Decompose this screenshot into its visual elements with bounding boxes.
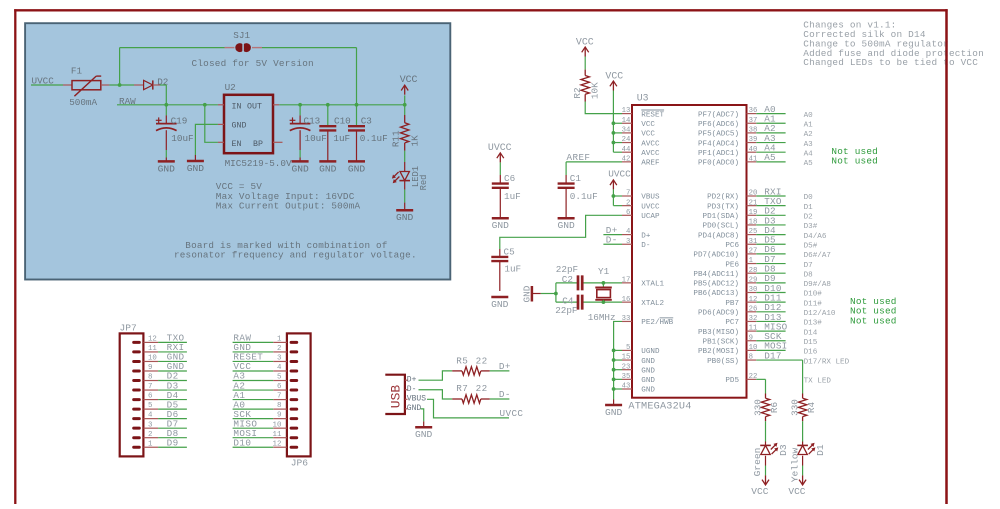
svg-text:Y1: Y1 — [598, 266, 610, 277]
svg-text:GND: GND — [491, 299, 509, 310]
resistor R6 330 — [752, 394, 780, 442]
U3 pin 41 PF0(ADC0) — [698, 152, 813, 168]
svg-text:A5: A5 — [764, 152, 776, 163]
note board marking — [174, 240, 417, 261]
supply VCC below D3 — [751, 475, 769, 497]
JP7 pin 1 net D9 — [143, 437, 187, 448]
U3 pin 23 GND — [622, 363, 656, 375]
svg-text:10uF: 10uF — [305, 133, 327, 144]
U3 pin 37 PF6(ADC6) — [698, 114, 813, 130]
svg-text:D-: D- — [641, 242, 650, 250]
svg-text:28: 28 — [749, 267, 758, 275]
ground below U2 GND — [187, 155, 205, 174]
U3 pin 27 PD7(ADC10) — [693, 244, 831, 260]
ground below C3 — [348, 161, 366, 174]
svg-text:3: 3 — [626, 238, 630, 246]
U3 pin 42 AREF — [622, 155, 660, 167]
svg-text:4: 4 — [277, 364, 282, 372]
svg-text:20: 20 — [749, 190, 758, 198]
svg-text:7: 7 — [148, 383, 152, 391]
svg-text:UCAP: UCAP — [641, 213, 660, 221]
svg-text:15: 15 — [622, 354, 631, 362]
svg-text:A3: A3 — [804, 141, 814, 149]
JP6 pin 1 net RAW — [233, 333, 287, 344]
JP7 pin 6 net D4 — [143, 390, 187, 401]
svg-text:F1: F1 — [71, 65, 83, 76]
svg-text:9: 9 — [277, 412, 281, 420]
svg-text:0.1uF: 0.1uF — [570, 191, 598, 202]
svg-text:6: 6 — [277, 383, 281, 391]
svg-text:D3#: D3# — [804, 223, 818, 231]
svg-text:D8: D8 — [804, 271, 814, 279]
svg-text:GND: GND — [605, 407, 623, 418]
svg-text:JP6: JP6 — [291, 458, 309, 469]
svg-text:R11: R11 — [391, 130, 402, 147]
USB pin GND — [405, 404, 422, 413]
svg-text:32: 32 — [749, 315, 758, 323]
svg-text:GND: GND — [348, 163, 366, 174]
U3 pin 14 VCC — [622, 117, 656, 129]
capacitor C6 — [492, 173, 521, 212]
svg-text:AREF: AREF — [567, 152, 591, 163]
svg-text:GND: GND — [641, 387, 655, 395]
svg-text:14: 14 — [622, 117, 631, 125]
svg-text:R7: R7 — [456, 383, 468, 394]
svg-text:A5: A5 — [804, 160, 814, 168]
wire D2 to RAW node — [153, 85, 167, 105]
svg-text:6: 6 — [148, 393, 152, 401]
JP6 pin 7 net A1 — [233, 390, 287, 401]
svg-text:UVCC: UVCC — [32, 76, 55, 87]
capacitor C13 — [290, 105, 327, 162]
svg-text:42: 42 — [622, 155, 631, 163]
wire XTAL1 row — [582, 281, 622, 285]
svg-text:UVCC: UVCC — [488, 142, 512, 153]
JP7 pin 5 net D5 — [143, 399, 187, 410]
svg-text:17: 17 — [622, 276, 631, 284]
U3 pin 5 UGND — [622, 344, 660, 356]
svg-text:U2: U2 — [225, 82, 236, 93]
svg-text:35: 35 — [622, 373, 631, 381]
JP7 pin 12 net TXO — [143, 333, 187, 344]
svg-text:10uF: 10uF — [171, 133, 193, 144]
wire R2 to RESET pin — [585, 102, 622, 114]
resistor R5 22 — [452, 355, 490, 375]
svg-text:1: 1 — [148, 440, 153, 448]
net stub D- to U3 — [603, 235, 622, 246]
svg-text:8: 8 — [148, 374, 152, 382]
svg-text:VCC: VCC — [751, 486, 768, 497]
svg-text:25: 25 — [749, 228, 758, 236]
resistor R11 1K — [391, 105, 421, 172]
note changes v1.1 — [803, 20, 984, 69]
svg-text:GND: GND — [492, 220, 510, 231]
net label D+ after R5 — [490, 361, 511, 372]
supply UVCC above C6 — [488, 142, 512, 175]
svg-text:D+: D+ — [499, 361, 511, 372]
svg-text:VBUS: VBUS — [407, 395, 426, 404]
svg-text:39: 39 — [749, 136, 758, 144]
capacitor C5 — [491, 247, 521, 292]
svg-text:1: 1 — [277, 336, 282, 344]
svg-text:PD7(ADC10): PD7(ADC10) — [693, 252, 739, 260]
svg-text:GND: GND — [641, 377, 655, 385]
svg-text:330: 330 — [789, 399, 800, 416]
U3 pin 43 GND — [622, 383, 656, 395]
svg-text:24: 24 — [622, 136, 631, 144]
svg-text:RAW: RAW — [119, 96, 136, 107]
JP6 pin 5 net A3 — [233, 371, 287, 382]
svg-text:AVCC: AVCC — [641, 150, 660, 158]
JP6 pin 4 net VCC — [233, 361, 287, 372]
voltage regulator U2 — [218, 82, 292, 169]
svg-text:GND: GND — [396, 212, 414, 223]
svg-text:9: 9 — [148, 364, 152, 372]
svg-text:PD3(TX): PD3(TX) — [707, 203, 739, 211]
crystal Y1 16MHz — [588, 266, 616, 323]
svg-text:5: 5 — [626, 344, 630, 352]
JP7 pin 9 net GND — [143, 361, 187, 372]
U3 pin 40 PF1(ADC1) — [698, 143, 813, 159]
svg-text:Changed LEDs to be tied to VCC: Changed LEDs to be tied to VCC — [803, 57, 978, 68]
net RAW wire — [117, 96, 218, 107]
svg-text:D6#/A7: D6#/A7 — [804, 252, 831, 260]
resistor R7 22 — [452, 383, 490, 403]
svg-text:PF7(ADC7): PF7(ADC7) — [698, 111, 739, 119]
svg-text:PD5: PD5 — [725, 377, 739, 385]
svg-text:7: 7 — [277, 393, 281, 401]
supply VCC arrow (regulator out) — [400, 74, 418, 105]
svg-text:C2: C2 — [562, 274, 573, 285]
svg-text:PF6(ADC6): PF6(ADC6) — [698, 121, 739, 129]
svg-text:D3: D3 — [778, 444, 789, 456]
diode D2 — [144, 76, 169, 89]
svg-text:330: 330 — [752, 399, 763, 416]
svg-text:R4: R4 — [806, 402, 817, 414]
U3 pin 9 PB1(SCK) — [703, 331, 818, 347]
USB pin VBUS — [405, 395, 426, 404]
wire crystal ground rail — [554, 283, 558, 302]
net label D- after R7 — [490, 389, 511, 400]
svg-text:10K: 10K — [589, 82, 600, 99]
U3 pin 8 PB0(SS) — [707, 350, 850, 366]
svg-text:OUT: OUT — [247, 102, 262, 111]
svg-text:R6: R6 — [769, 402, 780, 413]
LED D1 Yellow — [789, 442, 826, 483]
svg-text:19: 19 — [749, 209, 758, 217]
svg-text:C1: C1 — [570, 173, 582, 184]
JP7 pin 4 net D6 — [143, 409, 187, 420]
svg-text:1K: 1K — [409, 135, 420, 147]
svg-text:38: 38 — [749, 127, 758, 135]
net label UVCC (input) — [31, 76, 72, 87]
svg-text:GND: GND — [641, 358, 655, 366]
svg-text:D12/A10: D12/A10 — [804, 310, 836, 318]
ground below C13 — [291, 161, 309, 174]
wire AREF to C1 — [566, 152, 622, 175]
svg-text:5: 5 — [277, 374, 281, 382]
U3 pin 32 PC7 — [725, 312, 822, 328]
svg-text:10: 10 — [749, 344, 758, 352]
svg-text:22: 22 — [476, 355, 488, 366]
svg-text:A2: A2 — [804, 131, 814, 139]
svg-text:UVCC: UVCC — [608, 168, 631, 179]
svg-text:PD1(SDA): PD1(SDA) — [703, 213, 739, 221]
svg-text:Yellow: Yellow — [789, 447, 800, 482]
JP6 pin 6 net A2 — [233, 380, 287, 391]
ground below USB — [415, 421, 433, 440]
U3 pin 22 PD5 — [725, 373, 831, 386]
svg-text:PD4(ADC8): PD4(ADC8) — [698, 232, 739, 240]
capacitor C2 22pF — [556, 264, 582, 290]
svg-text:29: 29 — [749, 276, 758, 284]
svg-text:D17/RX LED: D17/RX LED — [804, 358, 850, 366]
svg-text:D-: D- — [606, 235, 618, 246]
svg-text:VCC: VCC — [400, 74, 418, 85]
svg-text:37: 37 — [749, 117, 758, 125]
svg-text:Green: Green — [752, 448, 763, 477]
svg-text:4: 4 — [148, 412, 153, 420]
svg-text:13: 13 — [622, 107, 631, 115]
svg-text:12: 12 — [273, 440, 282, 448]
connector USB — [385, 375, 405, 414]
svg-text:PF0(ADC0): PF0(ADC0) — [698, 160, 739, 168]
svg-text:PE2/HWB: PE2/HWB — [641, 319, 673, 327]
wire USB D- to R7 — [419, 390, 453, 399]
svg-text:11: 11 — [273, 431, 282, 439]
JP7 pin 2 net D8 — [143, 428, 187, 439]
svg-text:12: 12 — [148, 336, 157, 344]
U3 pin 1 PE6 — [725, 254, 812, 270]
U3 pin 35 GND — [622, 373, 656, 385]
svg-text:VCC: VCC — [641, 121, 655, 129]
svg-text:GND: GND — [158, 163, 176, 174]
JP7 pin 11 net RXI — [143, 342, 187, 353]
svg-text:VCC: VCC — [788, 486, 805, 497]
capacitor C19 — [156, 105, 194, 162]
svg-text:PB1(SCK): PB1(SCK) — [703, 338, 739, 346]
svg-text:C3: C3 — [361, 116, 372, 127]
svg-text:8: 8 — [277, 402, 281, 410]
solder jumper SJ1 — [225, 30, 263, 53]
svg-text:D4/A6: D4/A6 — [804, 233, 827, 241]
svg-text:Closed for 5V Version: Closed for 5V Version — [192, 58, 314, 69]
supply UVCC to U3 VBUS/UVCC pins — [608, 168, 631, 205]
JP6 pin 2 net GND — [233, 342, 287, 353]
svg-text:1: 1 — [749, 257, 754, 265]
wire USB D+ to R5 — [419, 371, 453, 380]
svg-text:PC6: PC6 — [725, 242, 739, 250]
wire top jumper net — [120, 48, 357, 105]
U3 pin 34 VCC — [622, 127, 656, 139]
U3 pin 20 PD2(RX) — [707, 186, 813, 202]
svg-text:GND: GND — [557, 220, 575, 231]
svg-text:PF1(ADC1): PF1(ADC1) — [698, 150, 739, 158]
svg-text:10: 10 — [273, 421, 282, 429]
svg-text:22: 22 — [476, 383, 488, 394]
svg-text:6: 6 — [626, 209, 630, 217]
JP6 pin 3 net RESET — [233, 352, 287, 363]
U3 pin 31 PC6 — [725, 235, 817, 251]
wire U2 EN tie to RAW — [205, 105, 218, 143]
svg-text:Max Current Output: 500mA: Max Current Output: 500mA — [216, 201, 361, 212]
U3 pin 12 PB7 — [725, 292, 822, 308]
svg-text:GND: GND — [641, 367, 655, 375]
svg-text:PD0(SCL): PD0(SCL) — [703, 223, 739, 231]
svg-text:VBUS: VBUS — [641, 194, 660, 202]
svg-text:D1: D1 — [815, 444, 826, 456]
svg-text:BP: BP — [253, 140, 263, 149]
svg-text:8: 8 — [749, 354, 753, 362]
svg-text:PB6(ADC13): PB6(ADC13) — [693, 290, 739, 298]
svg-text:26: 26 — [749, 305, 758, 313]
wire U2 GND to ground — [195, 124, 218, 155]
svg-text:22: 22 — [749, 373, 758, 381]
U3 pin 6 UCAP — [622, 209, 660, 221]
wire D17 to R4 column — [802, 360, 804, 393]
svg-text:1uF: 1uF — [333, 133, 350, 144]
svg-text:1uF: 1uF — [504, 263, 521, 274]
svg-text:PB4(ADC11): PB4(ADC11) — [693, 271, 739, 279]
svg-text:Not used: Not used — [831, 156, 878, 167]
ground below LED1 — [396, 203, 414, 224]
svg-text:27: 27 — [749, 248, 758, 256]
svg-text:GND: GND — [415, 429, 433, 440]
U3 pin 13 RESET — [622, 107, 665, 119]
svg-text:7: 7 — [626, 190, 630, 198]
svg-text:0.1uF: 0.1uF — [360, 133, 388, 144]
svg-text:5: 5 — [148, 402, 152, 410]
ground below C5 — [491, 297, 509, 310]
U3 pin 29 PB5(ADC12) — [693, 273, 831, 289]
svg-text:C5: C5 — [504, 247, 515, 258]
svg-text:GND: GND — [319, 163, 337, 174]
svg-text:D10: D10 — [233, 437, 251, 448]
wire UCAP to C5 — [500, 215, 622, 249]
svg-text:PC7: PC7 — [725, 319, 739, 327]
svg-text:9: 9 — [749, 334, 753, 342]
ground below C19 — [158, 161, 176, 174]
JP6 pin 8 net A0 — [233, 399, 287, 410]
svg-text:C19: C19 — [171, 115, 188, 126]
svg-text:2: 2 — [626, 199, 630, 207]
wire U3 ground rail — [612, 349, 622, 400]
svg-text:PF4(ADC4): PF4(ADC4) — [698, 140, 739, 148]
capacitor C4 22pF — [555, 295, 582, 316]
USB pin D+ — [405, 376, 417, 385]
svg-text:Red: Red — [419, 175, 429, 191]
capacitor C10 — [319, 105, 350, 162]
svg-text:RESET: RESET — [641, 111, 664, 119]
U3 pin 7 VBUS — [622, 190, 660, 202]
svg-text:D14: D14 — [804, 329, 818, 337]
svg-text:D0: D0 — [804, 194, 814, 202]
svg-text:2: 2 — [277, 345, 281, 353]
svg-text:PF5(ADC5): PF5(ADC5) — [698, 131, 739, 139]
ground crystal (rotated) — [521, 285, 556, 302]
power section background box — [25, 23, 450, 279]
U3 pin 30 PB6(ADC13) — [693, 283, 822, 299]
note VCC ratings — [216, 181, 361, 211]
svg-text:D-: D- — [499, 389, 511, 400]
U3 pin 33 PE2/HWB — [622, 315, 674, 327]
U3 pin 15 GND — [622, 354, 656, 366]
U3 pin 25 PD4(ADC8) — [698, 225, 827, 241]
svg-text:IN: IN — [232, 102, 242, 111]
svg-text:TX LED: TX LED — [804, 378, 832, 386]
IC U3 ATMEGA32U4 body — [628, 93, 746, 413]
U3 pin 17 XTAL1 — [622, 276, 665, 288]
svg-text:D10#: D10# — [804, 291, 823, 299]
svg-text:12: 12 — [749, 296, 758, 304]
svg-text:SJ1: SJ1 — [233, 30, 250, 41]
svg-text:VCC: VCC — [605, 70, 623, 81]
U3 pin 24 AVCC — [622, 136, 660, 148]
svg-text:33: 33 — [622, 315, 631, 323]
svg-text:U3: U3 — [637, 93, 649, 104]
svg-text:C13: C13 — [304, 115, 321, 126]
svg-text:16MHz: 16MHz — [588, 312, 616, 323]
net stub D+ to U3 — [603, 225, 622, 236]
svg-text:R5: R5 — [456, 355, 468, 366]
ground below C10 — [319, 161, 337, 174]
svg-text:EN: EN — [232, 140, 242, 149]
svg-text:30: 30 — [749, 286, 758, 294]
svg-text:GND: GND — [232, 122, 247, 131]
svg-text:D+: D+ — [641, 232, 651, 240]
ground below C6 — [492, 212, 510, 231]
svg-text:1uF: 1uF — [504, 191, 521, 202]
svg-text:D2: D2 — [804, 214, 814, 222]
svg-text:PB7: PB7 — [725, 300, 739, 308]
svg-text:16: 16 — [622, 296, 631, 304]
svg-text:36: 36 — [749, 107, 758, 115]
svg-text:D5#: D5# — [804, 242, 818, 250]
svg-text:GND: GND — [407, 404, 422, 413]
svg-text:A0: A0 — [804, 112, 814, 120]
U3 pin 2 UVCC — [622, 199, 660, 211]
svg-text:JP7: JP7 — [120, 322, 137, 333]
svg-text:UGND: UGND — [641, 348, 660, 356]
svg-text:23: 23 — [622, 363, 631, 371]
svg-text:ATMEGA32U4: ATMEGA32U4 — [628, 402, 691, 413]
svg-text:UVCC: UVCC — [641, 203, 660, 211]
svg-text:PB2(MOSI): PB2(MOSI) — [698, 348, 739, 356]
svg-text:A4: A4 — [804, 150, 814, 158]
svg-text:10: 10 — [148, 355, 157, 363]
svg-text:2: 2 — [148, 431, 152, 439]
svg-text:PB3(MISO): PB3(MISO) — [698, 329, 739, 337]
wire VCC output rail — [279, 103, 406, 107]
svg-text:resonator frequency and regula: resonator frequency and regulator voltag… — [174, 249, 417, 260]
U3 pin 28 PB4(ADC11) — [693, 264, 813, 280]
resistor R2 10K — [572, 70, 601, 102]
supply VCC below D1 — [788, 475, 806, 497]
JP7 pin 8 net D2 — [143, 371, 187, 382]
svg-text:D7: D7 — [804, 262, 813, 270]
svg-text:PD6(ADC9): PD6(ADC9) — [698, 310, 739, 318]
svg-text:43: 43 — [622, 383, 631, 391]
supply VCC to U3 power pins — [605, 70, 623, 152]
JP6 pin 12 net D10 — [233, 437, 287, 448]
svg-text:18: 18 — [749, 219, 758, 227]
svg-text:Not used: Not used — [850, 315, 897, 326]
svg-text:C6: C6 — [504, 173, 515, 184]
U3 pin 16 XTAL2 — [622, 296, 665, 308]
svg-text:D15: D15 — [804, 339, 818, 347]
connector JP6 — [287, 333, 311, 468]
ground below U3 — [605, 400, 623, 418]
